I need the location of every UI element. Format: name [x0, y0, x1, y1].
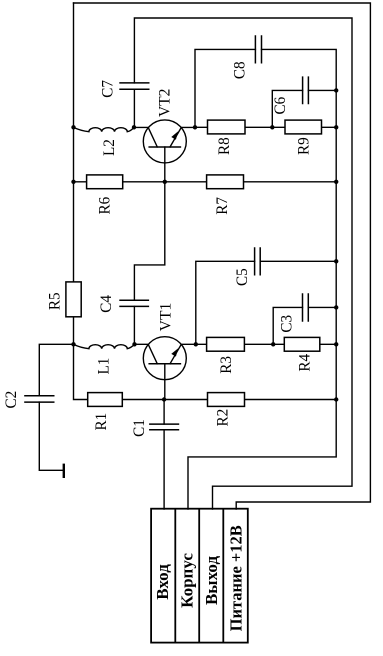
svg-text:C4: C4: [98, 295, 115, 313]
svg-text:L1: L1: [95, 358, 112, 375]
svg-text:C1: C1: [130, 419, 147, 437]
svg-text:C8: C8: [231, 61, 248, 79]
svg-text:C6: C6: [272, 97, 289, 115]
svg-text:C3: C3: [278, 315, 295, 333]
svg-text:R7: R7: [214, 197, 231, 215]
svg-text:Питание +12В: Питание +12В: [226, 525, 245, 631]
svg-text:R6: R6: [96, 197, 113, 215]
svg-text:Вход: Вход: [153, 564, 172, 600]
svg-text:R2: R2: [214, 409, 231, 427]
svg-text:C2: C2: [2, 391, 19, 409]
svg-text:R9: R9: [295, 137, 312, 155]
svg-text:Выход: Выход: [202, 556, 221, 605]
svg-text:C7: C7: [99, 80, 116, 98]
svg-text:C5: C5: [234, 268, 251, 286]
svg-text:R5: R5: [46, 292, 63, 310]
svg-text:R4: R4: [296, 354, 313, 372]
svg-text:VT2: VT2: [156, 89, 173, 117]
svg-text:Корпус: Корпус: [178, 553, 197, 608]
svg-text:L2: L2: [101, 139, 118, 156]
svg-text:R3: R3: [218, 356, 235, 374]
svg-text:VT1: VT1: [157, 303, 174, 331]
svg-text:R1: R1: [93, 413, 110, 431]
svg-text:R8: R8: [216, 137, 233, 155]
